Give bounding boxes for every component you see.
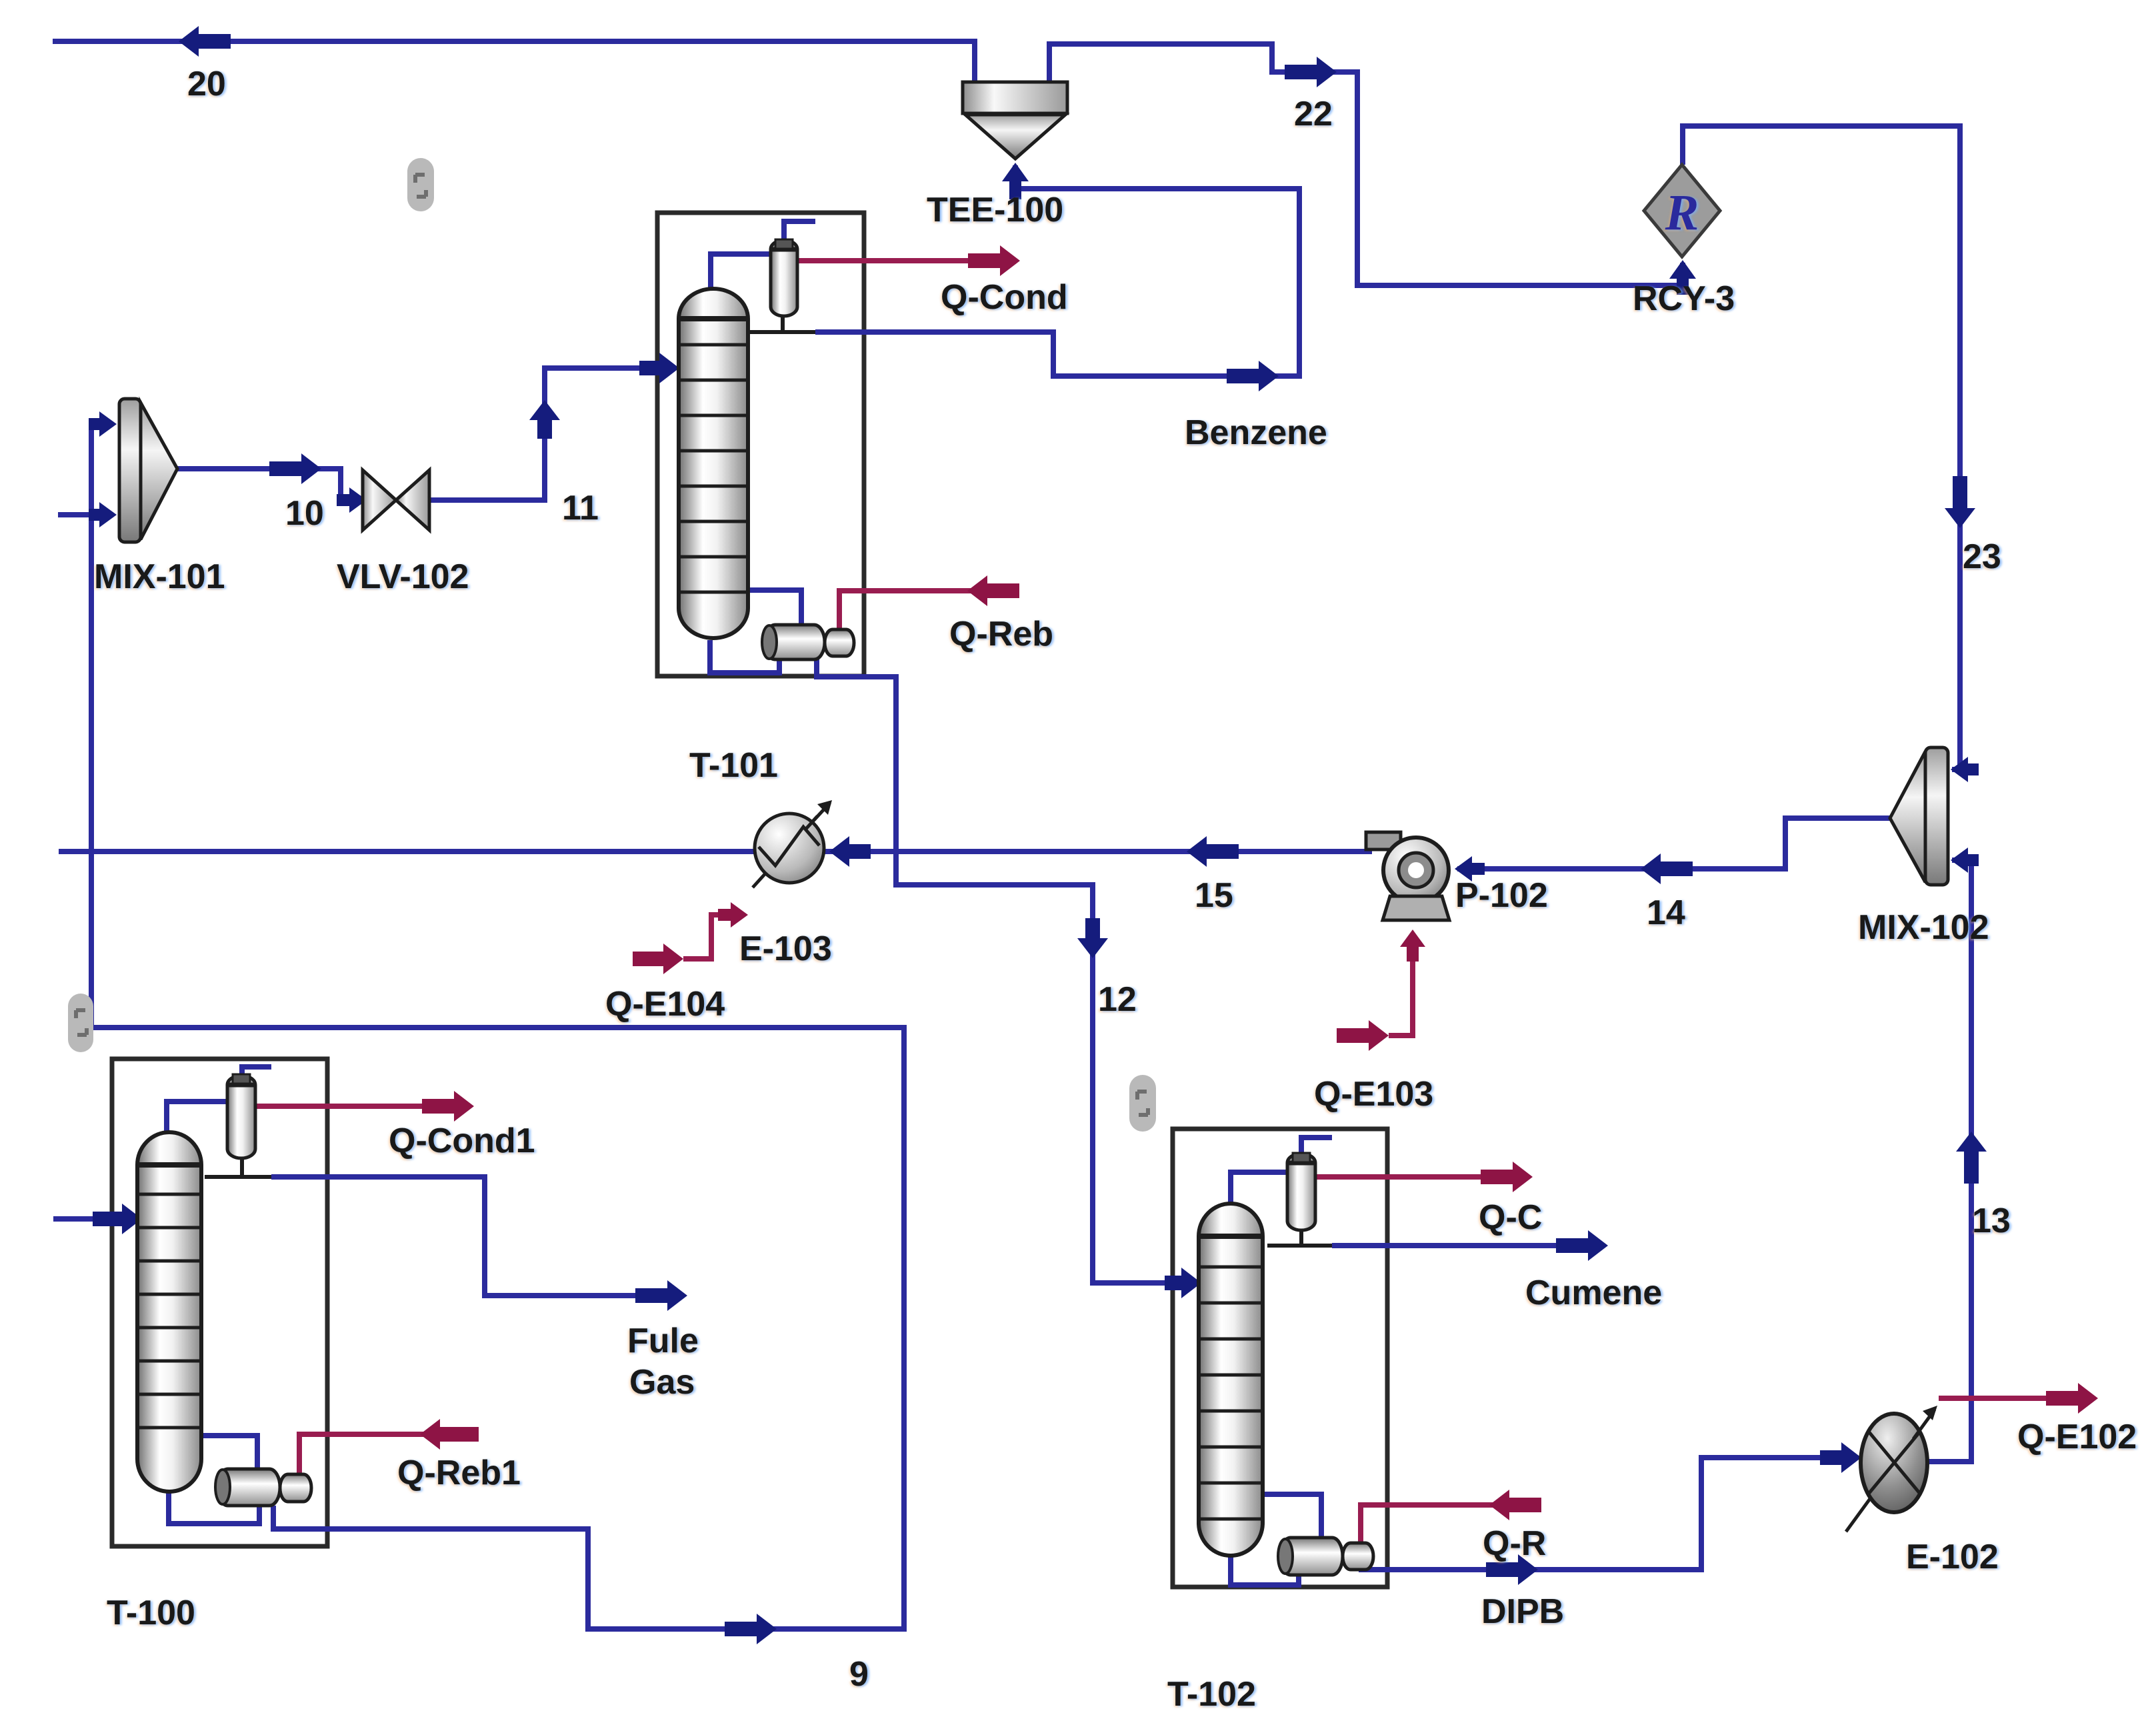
svg-text:20: 20 (187, 65, 226, 103)
svg-text:Gas: Gas (629, 1363, 695, 1402)
svg-text:15: 15 (1195, 876, 1233, 915)
svg-text:14: 14 (1647, 894, 1685, 932)
svg-text:E-103: E-103 (739, 930, 832, 968)
svg-text:Q-E103: Q-E103 (1314, 1075, 1433, 1114)
svg-text:9: 9 (849, 1655, 869, 1694)
svg-text:VLV-102: VLV-102 (337, 557, 469, 596)
svg-text:P-102: P-102 (1455, 876, 1548, 915)
svg-text:Fule: Fule (627, 1322, 699, 1360)
svg-text:MIX-102: MIX-102 (1858, 908, 1989, 947)
svg-text:Q-C: Q-C (1479, 1198, 1542, 1237)
svg-text:Cumene: Cumene (1525, 1274, 1662, 1312)
svg-text:TEE-100: TEE-100 (927, 191, 1063, 229)
svg-text:DIPB: DIPB (1481, 1592, 1564, 1631)
svg-text:Benzene: Benzene (1185, 413, 1327, 452)
svg-text:R: R (1665, 185, 1699, 241)
svg-text:Q-Cond1: Q-Cond1 (389, 1122, 535, 1160)
svg-text:Q-E102: Q-E102 (2017, 1418, 2137, 1456)
svg-text:Q-E104: Q-E104 (605, 985, 725, 1024)
svg-text:Q-Cond: Q-Cond (941, 278, 1068, 317)
svg-text:T-100: T-100 (107, 1594, 195, 1632)
svg-text:13: 13 (1972, 1202, 2011, 1240)
svg-text:10: 10 (285, 494, 324, 533)
svg-text:RCY-3: RCY-3 (1633, 279, 1735, 318)
svg-text:Q-Reb1: Q-Reb1 (397, 1454, 521, 1492)
svg-text:T-101: T-101 (689, 746, 778, 785)
svg-text:Q-Reb: Q-Reb (949, 615, 1053, 653)
svg-text:22: 22 (1294, 95, 1333, 133)
svg-text:MIX-101: MIX-101 (94, 557, 225, 596)
svg-text:23: 23 (1963, 537, 2001, 576)
svg-text:E-102: E-102 (1906, 1538, 1999, 1576)
svg-text:11: 11 (562, 489, 599, 527)
svg-text:12: 12 (1098, 980, 1137, 1019)
svg-text:T-102: T-102 (1167, 1675, 1256, 1714)
svg-text:Q-R: Q-R (1483, 1524, 1546, 1563)
